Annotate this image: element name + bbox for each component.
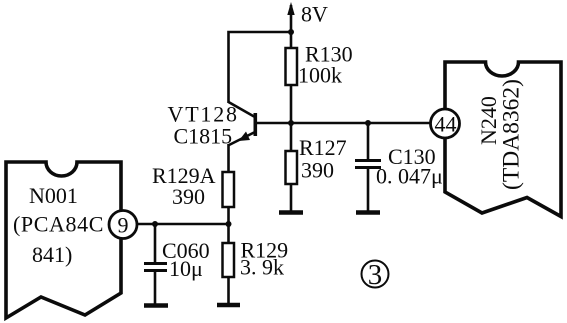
ground bar under R127 (279, 210, 303, 215)
IC N240 block outline (445, 62, 561, 217)
label R129 value (240, 238, 288, 280)
svg-text:9: 9 (118, 213, 129, 238)
wire 8V rail to collector (top loop) (229, 32, 292, 103)
svg-text:R127: R127 (299, 135, 347, 160)
resistor R130 (286, 48, 298, 85)
svg-text:(PCA84C: (PCA84C (13, 212, 104, 237)
svg-text:8V: 8V (301, 2, 328, 27)
ground bar under R129 (217, 303, 240, 308)
junction dot base node (288, 120, 294, 126)
capacitor C130 (355, 123, 381, 211)
svg-text:390: 390 (301, 158, 334, 183)
svg-text:(TDA8362): (TDA8362) (499, 79, 525, 190)
label PCA84C841 (13, 212, 104, 268)
ground bar under C060 (144, 303, 168, 308)
svg-text:0. 047μ: 0. 047μ (376, 164, 443, 189)
wire base node horizontal run to pin 44 (257, 122, 430, 125)
svg-text:100k: 100k (298, 63, 342, 88)
svg-text:10μ: 10μ (169, 256, 203, 281)
wire R130 to base node (290, 85, 293, 123)
circled 3 figure number (362, 259, 389, 291)
wire R129 to ground (227, 277, 230, 303)
svg-text:44: 44 (435, 112, 457, 137)
capacitor C060 (144, 224, 167, 304)
IC N001 block outline (6, 162, 121, 318)
junction dot C060 tap (152, 221, 158, 227)
wire emitter down to R129A (227, 144, 230, 172)
svg-text:N001: N001 (29, 183, 78, 208)
svg-text:3: 3 (368, 259, 383, 291)
pin 9 circle (109, 211, 137, 239)
svg-text:3. 9k: 3. 9k (240, 255, 284, 280)
resistor R129 (223, 243, 235, 277)
pin 44 circle (431, 109, 460, 138)
junction dot C130 node (365, 120, 371, 126)
wire node down to R129 (227, 224, 230, 243)
junction dot at 8V rail (288, 29, 294, 35)
svg-text:N240: N240 (476, 96, 501, 145)
label R127 value (299, 135, 347, 183)
label C130 value (376, 144, 443, 189)
wire lower horizontal from pin 9 (137, 223, 229, 226)
svg-text:C1815: C1815 (174, 124, 233, 149)
label R129A value (152, 163, 216, 209)
label R130 value (298, 42, 353, 88)
power 8V supply arrow (287, 2, 294, 31)
svg-text:841): 841) (32, 242, 72, 267)
wire R129A to lower node (227, 207, 230, 224)
transistor VT128 (229, 102, 256, 145)
junction dot emitter node (226, 221, 232, 227)
ground bar under C130 (356, 210, 380, 215)
svg-text:390: 390 (172, 184, 205, 209)
resistor R129A (223, 172, 235, 207)
resistor R127 (286, 123, 298, 211)
label C060 value (162, 238, 210, 281)
wire 8V node down to R130 (290, 32, 293, 48)
